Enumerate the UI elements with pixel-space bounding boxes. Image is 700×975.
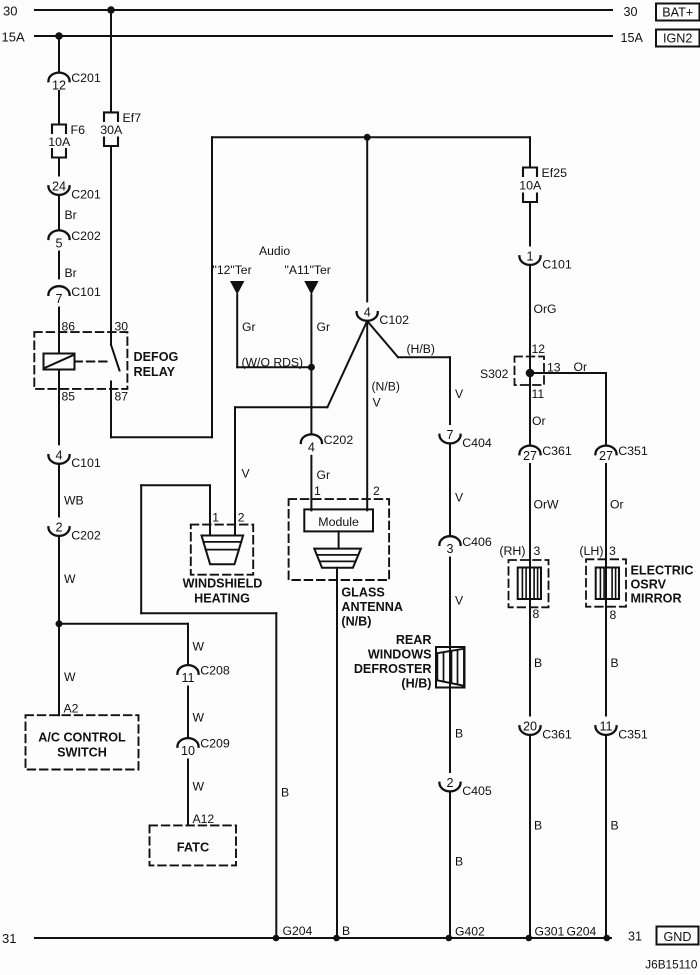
svg-text:A/C CONTROL: A/C CONTROL [38, 731, 126, 745]
svg-text:C101: C101 [542, 257, 572, 271]
svg-text:C201: C201 [71, 71, 101, 85]
svg-text:B: B [342, 924, 350, 938]
svg-text:J6B15110: J6B15110 [645, 958, 698, 972]
svg-text:WINDOWS: WINDOWS [368, 648, 432, 662]
svg-text:C361: C361 [542, 727, 572, 741]
svg-text:B: B [611, 819, 619, 833]
svg-text:10A: 10A [519, 179, 542, 193]
svg-text:Audio: Audio [259, 244, 290, 258]
svg-text:W: W [193, 711, 205, 725]
svg-text:24: 24 [52, 180, 66, 194]
svg-text:15A: 15A [621, 31, 644, 45]
svg-text:"A11"Ter: "A11"Ter [285, 263, 331, 277]
svg-text:B: B [281, 786, 289, 800]
svg-text:DEFOG: DEFOG [134, 350, 179, 364]
svg-text:F6: F6 [71, 123, 86, 137]
svg-text:WB: WB [64, 494, 84, 508]
svg-text:C202: C202 [71, 528, 101, 542]
svg-text:C201: C201 [71, 187, 101, 201]
svg-text:C351: C351 [618, 444, 648, 458]
svg-text:A2: A2 [64, 702, 79, 716]
svg-text:ELECTRIC: ELECTRIC [631, 564, 694, 578]
svg-text:G204: G204 [567, 925, 597, 939]
svg-text:Or: Or [574, 360, 588, 374]
svg-text:3: 3 [609, 544, 616, 558]
svg-text:1: 1 [526, 250, 533, 264]
svg-text:11: 11 [532, 387, 545, 401]
svg-text:V: V [455, 491, 464, 505]
svg-text:GND: GND [664, 930, 692, 944]
svg-text:(LH): (LH) [579, 544, 603, 558]
svg-text:8: 8 [610, 608, 617, 622]
svg-text:10A: 10A [48, 135, 71, 149]
svg-text:S302: S302 [480, 367, 509, 381]
svg-text:B: B [455, 855, 463, 869]
svg-text:C101: C101 [71, 285, 101, 299]
svg-text:G402: G402 [455, 925, 485, 939]
svg-text:11: 11 [181, 671, 194, 685]
svg-text:OrG: OrG [534, 302, 557, 316]
svg-text:10: 10 [181, 744, 195, 758]
svg-text:15A: 15A [2, 30, 25, 45]
svg-text:30: 30 [115, 320, 129, 334]
svg-text:V: V [455, 387, 464, 401]
svg-text:4: 4 [308, 440, 315, 454]
svg-text:B: B [455, 727, 463, 741]
svg-text:GLASS: GLASS [341, 586, 384, 600]
svg-text:2: 2 [373, 484, 380, 498]
svg-text:"12"Ter: "12"Ter [213, 263, 252, 277]
svg-text:Gr: Gr [242, 320, 256, 334]
svg-text:3: 3 [534, 544, 541, 558]
svg-text:87: 87 [115, 390, 129, 404]
svg-text:(N/B): (N/B) [341, 615, 371, 629]
svg-text:Br: Br [65, 208, 77, 222]
svg-text:C202: C202 [324, 433, 354, 447]
svg-text:2: 2 [446, 776, 453, 790]
svg-text:86: 86 [62, 320, 76, 334]
svg-text:85: 85 [62, 390, 76, 404]
svg-text:MIRROR: MIRROR [631, 592, 682, 606]
svg-text:BAT+: BAT+ [662, 6, 693, 20]
svg-text:8: 8 [533, 607, 540, 621]
svg-text:OrW: OrW [534, 498, 560, 512]
svg-text:G204: G204 [283, 924, 313, 938]
svg-text:30A: 30A [100, 123, 123, 137]
svg-text:30: 30 [3, 4, 17, 19]
svg-text:W: W [193, 780, 205, 794]
svg-text:Gr: Gr [317, 468, 331, 482]
svg-text:SWITCH: SWITCH [57, 746, 107, 760]
svg-text:HEATING: HEATING [194, 592, 250, 606]
svg-text:Or: Or [532, 414, 546, 428]
svg-text:Ef7: Ef7 [123, 111, 142, 125]
svg-text:REAR: REAR [396, 633, 432, 647]
svg-text:IGN2: IGN2 [663, 32, 692, 46]
svg-text:Gr: Gr [317, 320, 331, 334]
svg-text:C405: C405 [462, 784, 492, 798]
svg-text:C404: C404 [462, 436, 492, 450]
svg-text:W: W [64, 670, 76, 684]
svg-text:5: 5 [55, 236, 62, 250]
svg-text:31: 31 [2, 931, 16, 946]
svg-text:W: W [64, 572, 76, 586]
svg-text:C202: C202 [71, 229, 101, 243]
svg-text:ANTENNA: ANTENNA [341, 600, 403, 614]
svg-text:B: B [534, 656, 542, 670]
svg-text:A12: A12 [193, 812, 215, 826]
svg-text:W: W [193, 640, 205, 654]
svg-text:C209: C209 [200, 737, 230, 751]
svg-text:11: 11 [599, 720, 612, 734]
svg-text:RELAY: RELAY [134, 365, 176, 379]
svg-text:27: 27 [523, 449, 537, 463]
svg-text:(H/B): (H/B) [407, 342, 435, 356]
svg-text:1: 1 [314, 484, 321, 498]
svg-text:7: 7 [55, 292, 62, 306]
svg-text:OSRV: OSRV [631, 578, 667, 592]
svg-text:7: 7 [446, 428, 453, 442]
svg-text:C406: C406 [462, 535, 492, 549]
svg-text:DEFROSTER: DEFROSTER [354, 662, 432, 676]
svg-text:30: 30 [624, 5, 638, 19]
svg-text:(RH): (RH) [499, 544, 525, 558]
svg-text:4: 4 [55, 449, 62, 463]
svg-text:Ef25: Ef25 [542, 166, 568, 180]
svg-text:20: 20 [523, 720, 537, 734]
svg-text:31: 31 [628, 930, 642, 944]
svg-text:Br: Br [65, 266, 77, 280]
svg-text:2: 2 [55, 521, 62, 535]
svg-text:12: 12 [532, 342, 546, 356]
svg-text:B: B [534, 819, 542, 833]
svg-text:3: 3 [446, 542, 453, 556]
svg-text:27: 27 [599, 449, 613, 463]
svg-text:G301: G301 [535, 925, 565, 939]
svg-text:4: 4 [364, 306, 371, 320]
svg-text:Module: Module [318, 515, 359, 529]
svg-text:1: 1 [212, 511, 219, 525]
svg-text:B: B [611, 656, 619, 670]
svg-text:C351: C351 [618, 727, 648, 741]
svg-text:C361: C361 [542, 444, 572, 458]
svg-text:C208: C208 [200, 664, 230, 678]
svg-text:V: V [242, 467, 251, 481]
svg-text:V: V [373, 396, 382, 410]
svg-text:WINDSHIELD: WINDSHIELD [183, 577, 263, 591]
svg-text:C102: C102 [379, 313, 409, 327]
svg-text:(H/B): (H/B) [401, 677, 431, 691]
svg-text:V: V [455, 594, 464, 608]
svg-text:FATC: FATC [177, 840, 209, 855]
svg-text:C101: C101 [71, 456, 101, 470]
svg-text:2: 2 [238, 511, 245, 525]
svg-text:(N/B): (N/B) [372, 380, 400, 394]
svg-text:Or: Or [610, 498, 624, 512]
